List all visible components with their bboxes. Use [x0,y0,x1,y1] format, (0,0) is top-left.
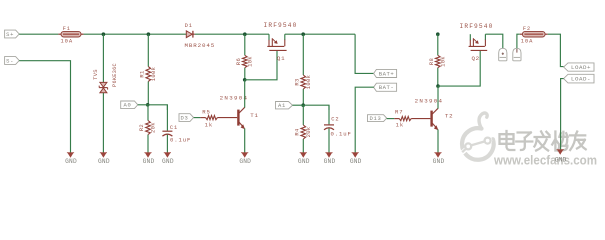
svg-text:F2: F2 [523,26,531,32]
wire T2 emitter to GND [437,129,439,154]
ground R2 [143,153,155,166]
resistor R3 100k [293,34,311,105]
ground TVS [98,153,110,166]
svg-text:GND: GND [324,158,336,165]
svg-text:D1: D1 [185,23,193,29]
svg-text:TVS: TVS [92,69,99,80]
wire T1 collector [244,80,246,108]
svg-text:D13: D13 [369,115,381,122]
svg-text:S+: S+ [6,31,14,38]
ground C1 [162,153,174,166]
node A1 junction [301,103,305,107]
svg-text:GND: GND [65,158,77,165]
svg-text:10A: 10A [60,38,73,45]
wire D1 to Q1 [195,33,269,35]
resistor R1 100k [138,34,156,105]
svg-text:C1: C1 [170,125,178,131]
resistor R5 1k [200,108,217,128]
svg-text:R4: R4 [293,128,300,136]
wire F2 to LOAD+ [548,34,564,66]
connector BAT+ [374,69,397,77]
p-channel MOSFET Q1 IRF9540 [263,22,297,62]
junction top rail / TVS [102,32,106,36]
watermark elecfans logo and text [460,113,598,169]
svg-text:T2: T2 [445,113,453,120]
svg-text:F1: F1 [63,26,71,32]
wire BAT- to GND [355,87,374,154]
wire rail to BAT+ label [355,34,374,73]
wire TVS to GND [102,93,104,154]
ground S- net [65,153,77,166]
transistor T2 2N3904 [415,98,454,131]
svg-text:10A: 10A [521,38,534,45]
wire A1 label to node [293,104,304,106]
transistor T1 2N3904 [220,94,259,129]
fuse F2 10A [520,26,548,45]
svg-text:R2: R2 [138,124,145,131]
svg-text:BAT+: BAT+ [379,70,395,77]
svg-text:R5: R5 [202,108,211,115]
ground R4 [298,153,310,166]
fuse F1 10A [58,26,83,45]
wire R6 node to Q1 gate [245,51,277,80]
ground BAT- [350,153,362,166]
svg-text:10k: 10k [246,56,253,67]
ground T2 emitter [433,153,445,166]
wire F1 to D1 [84,33,187,35]
connector LOAD+ [564,63,594,71]
resistor R7 1k [394,108,411,128]
wire pad 2 to F2 [517,34,520,48]
svg-text:GND: GND [555,156,567,163]
svg-text:IRF9540: IRF9540 [263,22,297,29]
svg-text:S-: S- [6,57,14,64]
ground LOAD- [555,150,567,164]
wire D3 to R5 [194,117,201,119]
wire A0 label to node [138,104,148,106]
svg-text:GND: GND [143,158,155,165]
net label D3 [179,114,194,122]
svg-text:LOAD+: LOAD+ [571,64,591,71]
svg-text:GND: GND [433,158,445,165]
wire D13 to R7 [387,118,395,120]
svg-text:T1: T1 [250,112,258,119]
svg-text:0.1uF: 0.1uF [331,131,352,138]
resistor R4 20k [293,105,311,154]
svg-text:10k: 10k [439,56,446,67]
wire R8 node to Q2 gate [438,51,480,86]
svg-text:A0: A0 [124,102,132,109]
node A0 junction [146,103,150,107]
wire rail down to TVS [102,34,104,82]
junction R6 / T1 collector / Q1 gate [243,78,247,82]
svg-text:D3: D3 [180,114,188,121]
net label D13 [368,115,387,122]
p-channel MOSFET Q2 IRF9540 [459,23,493,62]
pad 2 (jumper) [513,48,521,61]
svg-text:1k: 1k [396,121,405,128]
wire S+ to F1 [19,33,58,35]
wire Q2 drain to pad 1 [485,34,502,48]
pad 1 (jumper) [499,48,507,61]
junction top rail / R6 [243,32,247,36]
svg-text:2N3904: 2N3904 [220,94,249,101]
wire R7 to T2 base [411,118,430,120]
svg-text:20k: 20k [150,122,157,133]
connector BAT- [374,83,397,91]
wire LOAD- to GND [561,79,564,151]
resistor R2 20k [138,105,156,155]
svg-text:GND: GND [350,158,362,165]
wire S- to GND [19,61,70,155]
svg-text:20k: 20k [305,126,312,137]
connector S- [5,57,20,65]
svg-text:1k: 1k [205,122,214,129]
svg-text:2N3904: 2N3904 [415,98,444,105]
svg-text:BAT-: BAT- [379,84,394,91]
svg-text:Q2: Q2 [472,55,480,62]
capacitor C2 0.1uF [324,105,352,154]
TVS diode P6KE36C [92,63,118,93]
wire T2 collector [437,86,439,109]
net label A0 [121,101,138,109]
svg-text:GND: GND [98,158,110,165]
connector S+ [5,30,20,38]
svg-text:R3: R3 [293,78,300,85]
wire R5 to T1 base [217,117,237,119]
svg-text:GND: GND [239,158,251,165]
diode D1 MBR2045 [184,23,215,49]
svg-text:IRF9540: IRF9540 [459,23,493,30]
junction top rail / R3 [301,32,305,36]
svg-text:0.1uF: 0.1uF [170,137,191,144]
net label A1 [276,102,293,110]
svg-text:R1: R1 [138,70,145,78]
svg-text:GND: GND [162,158,174,165]
svg-text:LOAD-: LOAD- [571,76,591,83]
svg-text:P6KE36C: P6KE36C [112,63,118,87]
svg-text:100k: 100k [305,74,312,89]
svg-text:MBR2045: MBR2045 [184,42,215,49]
resistor R6 10k [235,34,253,80]
ground T1 emitter [239,153,251,166]
wire node A1 to C2 [303,105,329,110]
svg-text:Q1: Q1 [277,55,285,62]
svg-text:100k: 100k [150,66,157,81]
junction top rail / R8 [436,32,440,36]
connector LOAD- [564,74,594,83]
junction R8 / T2 collector / Q2 gate [436,84,440,88]
svg-text:A1: A1 [278,102,286,109]
wire T1 emitter to GND [244,128,246,154]
svg-text:www.elecfans.com: www.elecfans.com [493,154,597,168]
capacitor C1 0.1uF [162,105,191,155]
wire node A0 to C1 [148,105,168,110]
svg-text:C2: C2 [331,117,339,123]
ground C2 [324,153,336,166]
svg-text:GND: GND [298,158,310,165]
svg-text:R8: R8 [428,58,435,65]
resistor R8 10k [428,34,446,86]
svg-text:R7: R7 [395,108,404,115]
wire Q1 drain rail [285,33,355,35]
svg-text:R6: R6 [235,58,242,65]
junction top rail / R1 [147,32,151,36]
